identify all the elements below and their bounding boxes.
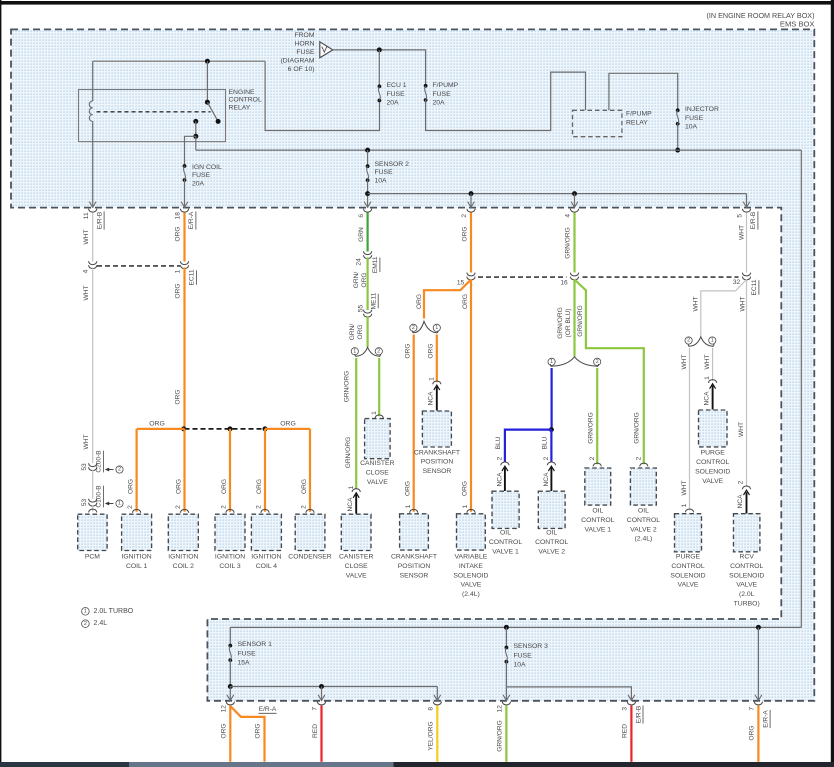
svg-text:2: 2 <box>118 467 121 473</box>
wire NCA purge <box>712 385 714 409</box>
svg-text:GRN/ORG: GRN/ORG <box>564 227 571 259</box>
svg-text:POSITION: POSITION <box>398 563 431 570</box>
wire GRN/ORG bottom <box>505 706 507 762</box>
label GRN/ORG two-line <box>353 272 368 289</box>
svg-text:ENGINE: ENGINE <box>229 89 256 96</box>
component CANISTER CLOSE VALVE (lower) <box>341 514 371 550</box>
wire WHT purge branch <box>701 280 747 337</box>
label GRN/ORG pin4 <box>564 227 571 259</box>
svg-text:1: 1 <box>353 349 356 355</box>
bottom bar segment 1 <box>0 762 129 767</box>
svg-text:WHT: WHT <box>83 229 90 244</box>
svg-text:VALVE 2: VALVE 2 <box>630 526 657 533</box>
svg-text:10A: 10A <box>375 177 388 184</box>
label OIL CONTROL VALVE 1 green <box>581 508 614 534</box>
bottom connector pin 12 at x=230.3 <box>221 695 235 713</box>
header EMS BOX <box>780 20 815 29</box>
svg-text:7: 7 <box>312 707 319 711</box>
bottom bar segment 3 <box>394 762 834 767</box>
svg-text:ORG: ORG <box>404 481 411 496</box>
component RCV CONTROL SOLENOID VALVE <box>734 514 760 552</box>
component IGNITION COIL 1 <box>122 514 152 550</box>
label RED bottom <box>312 724 319 738</box>
relay coil <box>89 101 92 121</box>
label WHT main <box>740 296 747 311</box>
svg-text:ORG: ORG <box>301 479 308 494</box>
label ENGINE CONTROL RELAY <box>229 89 262 112</box>
legend 2.4L <box>82 620 108 628</box>
label NCA ocv2 <box>543 472 550 487</box>
label RCV CONTROL SOLENOID VALVE <box>729 554 764 608</box>
relay switch output contact <box>193 119 198 124</box>
wire BLU horizontal <box>505 430 552 463</box>
wire ORG ignition coil 2 drop <box>183 429 185 512</box>
bottom bar segment 2 <box>129 762 394 767</box>
svg-text:E/R-B: E/R-B <box>750 211 757 229</box>
wire ORG main to ignition bus <box>183 268 185 430</box>
label IGNITION COIL 4 <box>251 554 281 570</box>
component OIL CONTROL VALVE 1 (green) <box>585 468 611 505</box>
svg-text:3: 3 <box>622 707 629 711</box>
wire: sensor1 fuse out <box>229 660 231 686</box>
svg-text:2: 2 <box>589 456 596 460</box>
wire: bus to sensor2 fuse <box>367 150 369 166</box>
svg-text:F/PUMP: F/PUMP <box>433 82 459 89</box>
EMS connector pin 6 <box>358 202 372 218</box>
svg-text:GRN/ORG: GRN/ORG <box>497 720 504 752</box>
label ORG bottom right <box>749 725 756 740</box>
svg-text:1: 1 <box>462 504 469 508</box>
junction trunk pin2 <box>469 191 474 196</box>
wire: relay output to main bus <box>195 136 197 150</box>
inline connector EC11 pin 15 <box>457 273 475 287</box>
wire WHT purge branch 1 <box>712 348 714 381</box>
label GRN/ORG two-line 2 <box>349 324 364 341</box>
wire NCA canister <box>355 494 357 514</box>
svg-text:FUSE: FUSE <box>514 652 533 659</box>
svg-text:NCA: NCA <box>497 472 504 487</box>
svg-text:5: 5 <box>737 214 744 218</box>
label NCA crank <box>428 391 435 406</box>
svg-text:SOLENOID: SOLENOID <box>670 572 705 579</box>
svg-text:CLOSE: CLOSE <box>366 469 390 476</box>
svg-text:FUSE: FUSE <box>433 91 452 98</box>
label ORG / pin 2 ignition coil 1 drop <box>127 479 141 513</box>
label WHT rcv <box>738 422 745 437</box>
EMS connector pin 4 <box>565 202 579 218</box>
fuse ECU 1 FUSE 20A <box>378 85 382 103</box>
label ORG bus right <box>280 421 295 428</box>
svg-text:CLOSE: CLOSE <box>345 563 369 570</box>
label ORG bus left <box>149 421 164 428</box>
wire: drop pin 8 <box>436 687 438 701</box>
svg-text:COIL 1: COIL 1 <box>126 563 147 570</box>
fuse F/PUMP FUSE 20A <box>424 84 428 102</box>
component OIL CONTROL VALVE 1 (blue) <box>492 491 519 528</box>
wire ORG bottom left <box>229 706 231 762</box>
label ORG / pin 2 ignition coil 3 drop <box>221 479 235 513</box>
header (IN ENGINE ROOM RELAY BOX) <box>707 11 815 20</box>
label OIL CONTROL VALVE 2 green <box>627 508 660 543</box>
wire GRN/ORG right branch <box>575 280 644 465</box>
wire: horn fuse distribution <box>333 50 426 86</box>
junction relay output <box>193 134 198 139</box>
svg-text:2: 2 <box>687 338 690 344</box>
label WHT purge2b <box>681 480 688 495</box>
label ORG <box>175 389 182 404</box>
component OIL CONTROL VALVE 2 (blue) <box>538 491 565 528</box>
svg-text:IGNITION: IGNITION <box>121 554 151 561</box>
junction at relay switch feed <box>205 59 210 64</box>
svg-text:VALVE: VALVE <box>460 582 481 589</box>
junction at ECU1 fuse top <box>377 47 382 52</box>
bottom connector pin 7 at x=758.4 <box>749 695 763 711</box>
component IGNITION COIL 2 <box>168 514 198 550</box>
svg-text:1: 1 <box>405 504 412 508</box>
svg-text:2.0L TURBO: 2.0L TURBO <box>94 608 134 615</box>
label WHT purge1 <box>704 354 711 369</box>
wire: drop pin 12 left <box>229 687 231 701</box>
wire GRN/ORG canister branch 2 <box>378 358 380 416</box>
svg-text:18: 18 <box>175 212 182 220</box>
svg-text:COIL 4: COIL 4 <box>256 563 277 570</box>
svg-text:PURGE: PURGE <box>676 554 701 561</box>
svg-text:4: 4 <box>565 214 572 218</box>
svg-text:GRN/ORG: GRN/ORG <box>345 437 352 469</box>
junction bus coil4 <box>263 426 268 431</box>
svg-text:WHT: WHT <box>739 225 746 240</box>
label VARIABLE INTAKE SOLENOID VALVE <box>453 554 488 599</box>
svg-text:ORG: ORG <box>175 389 182 404</box>
svg-text:PURGE: PURGE <box>701 450 726 457</box>
label GRN/ORG bottom <box>497 720 504 752</box>
svg-text:IGNITION: IGNITION <box>251 554 281 561</box>
wire: sensor3 branch horizontal <box>506 687 631 701</box>
svg-text:SENSOR 1: SENSOR 1 <box>238 641 273 648</box>
junction sensor3 top <box>504 625 509 630</box>
wire: trunk to pin 5 <box>746 194 748 208</box>
wire ORG crank branch 1 <box>436 335 438 383</box>
label OIL CONTROL VALVE 2 blue <box>535 530 568 556</box>
dashed link EC11 row mid <box>478 276 567 278</box>
svg-text:1: 1 <box>175 269 182 273</box>
svg-text:ORG: ORG <box>462 226 469 241</box>
label NCA rcv <box>737 494 744 509</box>
svg-text:FROM: FROM <box>294 32 314 39</box>
svg-text:CRANKSHAFT: CRANKSHAFT <box>414 449 460 456</box>
svg-text:TURBO): TURBO) <box>734 601 760 608</box>
fuse IGN COIL FUSE 20A <box>183 164 187 182</box>
component CONDENSER <box>295 514 325 550</box>
svg-text:E/R-A: E/R-A <box>188 211 195 229</box>
junction pin7 red <box>319 684 324 689</box>
wire: drop pin 12 right <box>505 687 507 701</box>
wire ORG pin2 <box>470 213 472 273</box>
svg-text:BLU: BLU <box>495 436 502 449</box>
wire: coil to EMS border (pin 11 feed) <box>92 121 94 207</box>
svg-text:VALVE: VALVE <box>346 572 367 579</box>
wire WHT into PCM <box>92 505 94 512</box>
component OIL CONTROL VALVE 2 (green) <box>630 468 656 505</box>
svg-text:2: 2 <box>461 214 468 218</box>
svg-text:53: 53 <box>81 463 88 471</box>
label CRANKSHAFT POSITION SENSOR upper <box>414 449 460 475</box>
svg-text:FUSE: FUSE <box>296 49 315 56</box>
label ORG variable <box>461 481 468 496</box>
svg-text:15A: 15A <box>238 660 251 667</box>
wire ORG crank branch <box>424 280 471 319</box>
svg-text:GRN/ORG: GRN/ORG <box>577 305 584 337</box>
splice bracket canister <box>351 347 382 356</box>
svg-text:IGNITION: IGNITION <box>168 554 198 561</box>
label GRN/ORG branch1b <box>345 437 352 469</box>
wire WHT pin11 to connector 4 <box>92 213 94 262</box>
splice bracket crankshaft <box>410 321 441 333</box>
variable intake pin 1 connector <box>462 504 475 512</box>
svg-text:2.4L: 2.4L <box>94 620 108 627</box>
label WHT pin5 <box>739 225 746 240</box>
green ocv2 pin 2 connector <box>635 456 648 466</box>
label CONDENSER <box>288 554 332 561</box>
label PURGE upper <box>695 450 730 485</box>
label E/R-B bottom <box>635 705 643 723</box>
wire: relay feed top horizontal <box>93 60 265 62</box>
wire ORG bus left <box>137 428 185 430</box>
wire GRN/ORG canister branch 1 <box>355 358 357 489</box>
wire: sensor2 trunk <box>368 193 747 195</box>
wire ORG pin18 to EC11 <box>183 213 185 262</box>
svg-text:VALVE: VALVE <box>736 582 757 589</box>
wire: sensor1 branch horizontal <box>230 686 437 688</box>
svg-text:(IN ENGINE ROOM RELAY BOX): (IN ENGINE ROOM RELAY BOX) <box>707 11 815 20</box>
wire NCA ocv2 <box>550 468 552 492</box>
label ORG / pin 2 ignition coil 4 drop <box>256 479 270 513</box>
junction trunk pin4 <box>572 191 577 196</box>
label ORG crank1 <box>428 343 435 358</box>
svg-text:1: 1 <box>711 338 714 344</box>
svg-text:RCV: RCV <box>740 554 755 561</box>
svg-text:2: 2 <box>175 505 182 509</box>
wire: trunk to pin 2 <box>470 194 472 208</box>
relay switch arm <box>207 102 218 121</box>
label IGNITION COIL 3 <box>215 554 245 570</box>
label GRN <box>358 227 365 242</box>
splice bracket oil valves <box>548 357 601 367</box>
label INJECTOR FUSE 10A <box>685 106 719 131</box>
wire: drop pin 7 red <box>321 687 323 701</box>
svg-text:EM11: EM11 <box>372 256 379 273</box>
EMS connector pin 11 <box>83 202 104 230</box>
label WHT 2 <box>83 434 90 449</box>
wire BLU branch <box>550 368 552 430</box>
svg-text:ORG: ORG <box>175 226 182 241</box>
component PURGE CONTROL SOLENOID VALVE (upper) <box>699 410 728 447</box>
svg-text:WHT: WHT <box>83 285 90 300</box>
label ORG crank2 <box>405 343 412 358</box>
label SENSOR 2 FUSE 10A <box>375 161 410 184</box>
svg-text:EC11: EC11 <box>189 269 196 285</box>
wire: F/PUMP fuse to F/PUMP relay <box>426 72 586 130</box>
svg-text:ORG: ORG <box>461 481 468 496</box>
label CANISTER CLOSE VALVE lower <box>339 554 373 580</box>
svg-text:RED: RED <box>622 724 629 738</box>
svg-text:VALVE 2: VALVE 2 <box>538 548 565 555</box>
svg-text:ORG: ORG <box>221 479 228 494</box>
svg-text:2: 2 <box>256 505 263 509</box>
label CANISTER CLOSE VALVE upper <box>360 460 394 486</box>
svg-text:(DIAGRAM: (DIAGRAM <box>281 57 315 64</box>
svg-text:CONTROL: CONTROL <box>229 97 262 104</box>
svg-text:2: 2 <box>127 505 134 509</box>
svg-text:CONDENSER: CONDENSER <box>288 554 332 561</box>
wire WHT to C200-B <box>92 268 94 464</box>
svg-text:CONTROL: CONTROL <box>489 539 522 546</box>
wire WHT to C100-B <box>92 470 94 500</box>
label SENSOR 3 FUSE 10A <box>514 643 549 669</box>
label RED bottom right <box>622 724 629 738</box>
fuse SENSOR 1 FUSE 15A <box>228 644 232 662</box>
wire ORG ignition coil 3 drop <box>229 429 231 512</box>
svg-text:NCA: NCA <box>703 391 710 406</box>
wire ORG ignition coil 1 drop <box>136 429 138 512</box>
svg-text:2: 2 <box>84 621 87 627</box>
svg-text:15: 15 <box>457 280 465 287</box>
wire: sensor2 fuse to border (pin 6 feed) <box>367 180 369 208</box>
wire: ECU1 fuse output to relay <box>265 61 379 130</box>
svg-text:FUSE: FUSE <box>387 91 406 98</box>
svg-text:ORG: ORG <box>405 343 412 358</box>
svg-text:HORN: HORN <box>294 40 314 47</box>
svg-text:CONTROL: CONTROL <box>535 539 568 546</box>
wire: relay switch common <box>206 61 208 102</box>
wire: IGN COIL fuse to border (pin 18 feed) <box>184 180 186 208</box>
label IGNITION COIL 1 <box>121 554 151 570</box>
bottom connector pin 7 at x=321.5 <box>312 695 326 711</box>
label F/PUMP FUSE 20A <box>433 82 459 107</box>
label ORG crank2b <box>404 481 411 496</box>
svg-text:6 OF 10): 6 OF 10) <box>288 66 315 73</box>
label E/R-A bottom right <box>762 710 770 728</box>
svg-text:2: 2 <box>377 349 380 355</box>
svg-text:SENSOR: SENSOR <box>423 468 452 475</box>
svg-text:16: 16 <box>560 280 568 287</box>
svg-text:WHT: WHT <box>681 480 688 495</box>
wire NCA ocv1 <box>504 468 506 492</box>
wire BLU to OCV2 <box>550 430 552 463</box>
wire: trunk to pin 4 <box>574 194 576 208</box>
label GRN/ORG ocv2 <box>587 412 594 444</box>
label NCA purge <box>703 391 710 406</box>
wire WHT main rcv <box>746 280 748 487</box>
svg-text:FUSE: FUSE <box>375 169 394 176</box>
svg-text:12: 12 <box>497 705 504 713</box>
label ORG main2 <box>462 294 469 309</box>
component CANISTER CLOSE VALVE (upper) <box>365 419 391 459</box>
svg-text:ORG: ORG <box>462 294 469 309</box>
svg-text:SENSOR 2: SENSOR 2 <box>375 161 410 168</box>
junction bus coil3 <box>228 426 233 431</box>
svg-text:INJECTOR: INJECTOR <box>685 106 719 113</box>
svg-text:F/PUMP: F/PUMP <box>626 110 652 117</box>
svg-text:6: 6 <box>358 214 365 218</box>
junction ignition bus main <box>181 426 186 431</box>
svg-text:VALVE: VALVE <box>702 478 723 485</box>
wire GRN/ORG ocv branch 2 <box>596 368 598 464</box>
svg-text:2: 2 <box>221 505 228 509</box>
label ORG pin2 <box>462 226 469 241</box>
svg-text:2: 2 <box>635 456 642 460</box>
wire: sensor3 drop <box>505 627 507 647</box>
label WHT purge2 <box>681 354 688 369</box>
svg-text:OIL: OIL <box>638 508 649 515</box>
svg-text:PCM: PCM <box>85 554 100 561</box>
label BLU ocv1 <box>495 436 502 449</box>
label GRN/ORG (OR BLU) <box>557 307 572 339</box>
label NCA canister <box>347 497 354 512</box>
svg-text:RELAY: RELAY <box>229 105 251 112</box>
wire GRN/ORG ME11 to split <box>367 316 369 347</box>
green ocv1 pin 2 connector <box>589 456 602 466</box>
svg-text:1: 1 <box>681 503 688 507</box>
svg-text:ORG: ORG <box>280 421 295 428</box>
label GRN/ORG branch1 <box>344 371 351 403</box>
wire ORG ignition coil 4 drop <box>264 429 266 512</box>
wire ORG main variable <box>470 280 472 512</box>
label IGNITION COIL 2 <box>168 554 198 570</box>
wire WHT pin5 <box>746 213 748 273</box>
svg-text:GRN/ORG: GRN/ORG <box>587 412 594 444</box>
dashed link EC11 row right <box>583 276 739 278</box>
svg-text:2: 2 <box>301 505 308 509</box>
svg-text:POSITION: POSITION <box>421 459 454 466</box>
purge lower pin 1 connector <box>681 503 694 512</box>
wire: sensor3 fuse out <box>505 662 507 687</box>
svg-text:ORG: ORG <box>361 272 368 287</box>
fuse SENSOR 3 FUSE 10A <box>505 646 509 664</box>
svg-text:E/R-A: E/R-A <box>259 706 277 713</box>
svg-text:SOLENOID: SOLENOID <box>729 572 764 579</box>
svg-text:10A: 10A <box>514 662 527 669</box>
component CRANKSHAFT POSITION SENSOR (upper) <box>422 411 451 447</box>
wire: drop to ECU1 fuse <box>378 50 380 87</box>
svg-text:32: 32 <box>733 279 741 286</box>
svg-text:CONTROL: CONTROL <box>627 517 660 524</box>
label ORG / pin 2 ignition coil 2 drop <box>175 479 189 513</box>
label ECU 1 FUSE 20A <box>387 82 407 107</box>
relay switch contact top <box>205 100 210 105</box>
inline connector ME11 pin 55 <box>358 292 379 317</box>
component PURGE CONTROL SOLENOID VALVE (lower) <box>675 514 702 552</box>
svg-text:FUSE: FUSE <box>238 650 257 657</box>
svg-text:C100-B: C100-B <box>96 485 103 508</box>
junction bottom right drop <box>756 625 761 630</box>
wire ORG bottom far right <box>757 706 759 762</box>
svg-text:1: 1 <box>435 325 438 331</box>
svg-text:VALVE 1: VALVE 1 <box>492 548 519 555</box>
svg-text:NCA: NCA <box>428 391 435 406</box>
svg-text:CONTROL: CONTROL <box>730 563 763 570</box>
svg-text:WHT: WHT <box>83 434 90 449</box>
wire: relay output to IGN COIL fuse <box>185 136 196 166</box>
crank upper pin 1 connector <box>428 377 441 390</box>
inline connector EC11 pin 16 <box>560 273 578 287</box>
svg-text:10A: 10A <box>685 124 698 131</box>
wire GRN/ORG pin4 <box>573 213 575 273</box>
svg-text:VALVE: VALVE <box>678 582 699 589</box>
dashed link EC11 row left <box>97 265 180 267</box>
svg-text:VALVE 1: VALVE 1 <box>585 526 612 533</box>
EMS connector pin 18 <box>175 202 196 230</box>
